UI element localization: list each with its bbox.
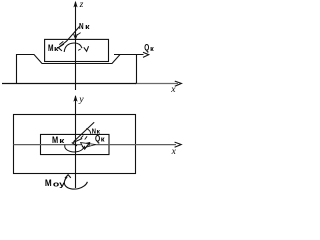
svg-text:x: x xyxy=(170,85,176,95)
Nk arrowhead (top) xyxy=(58,44,64,51)
svg-text:M: M xyxy=(45,178,52,188)
Qk hollow arrow (bottom) xyxy=(81,143,96,148)
inner rectangle (workpiece, top view) xyxy=(41,134,110,154)
Moy arc arrowhead xyxy=(65,175,71,179)
vertical force arrowhead on axis (top) xyxy=(74,34,78,39)
svg-text:к: к xyxy=(101,137,105,144)
x axis arrowhead (top figure) xyxy=(175,81,182,86)
svg-text:M: M xyxy=(52,135,58,145)
svg-text:к: к xyxy=(54,44,59,53)
small tick right of axis (top) xyxy=(77,33,81,36)
workpiece rectangle (top) xyxy=(45,39,109,61)
angle arc (bottom) xyxy=(86,129,91,134)
Mk arc arrowhead (bottom) xyxy=(86,143,90,147)
z axis xyxy=(75,2,77,90)
svg-text:y: y xyxy=(78,95,84,105)
Nk diagonal force line (bottom) xyxy=(74,122,95,142)
svg-text:x: x xyxy=(171,147,177,157)
svg-text:к: к xyxy=(85,24,90,31)
y axis arrowhead xyxy=(73,95,77,102)
Nk diagonal force line (top) xyxy=(58,27,79,48)
svg-text:оу: оу xyxy=(53,179,65,188)
Mk arc V hook (bottom) xyxy=(82,146,87,150)
Mk moment arc (top) xyxy=(64,43,82,52)
svg-text:N: N xyxy=(79,21,84,31)
parallel stroke on diagonal (top) xyxy=(59,41,63,44)
z axis arrowhead xyxy=(73,1,77,8)
svg-text:M: M xyxy=(48,43,54,53)
svg-text:Q: Q xyxy=(144,43,149,53)
base (fixture) outline xyxy=(17,55,137,84)
x axis (bottom figure) gray line xyxy=(14,144,177,146)
Moy moment arc xyxy=(64,177,87,189)
x axis arrowhead (bottom figure) xyxy=(175,142,182,147)
Mk moment arc (bottom) xyxy=(65,145,85,152)
Mk arc flag stroke (bottom) xyxy=(85,143,90,149)
Qk force arrow (top) xyxy=(114,54,144,56)
Mk arc small check stroke (top) xyxy=(78,49,81,50)
x axis (top figure) black segment / base bottom xyxy=(2,83,136,85)
Mk arc arrowhead (top) xyxy=(84,46,89,51)
Nk arrowhead (bottom) xyxy=(72,139,82,146)
tick 2 across diagonal (bottom) xyxy=(85,136,87,139)
svg-text:Q: Q xyxy=(95,133,100,143)
outer rectangle (plate, top view) xyxy=(14,115,136,174)
svg-text:z: z xyxy=(79,0,84,10)
x axis (top figure) gray segment xyxy=(135,83,178,85)
y axis xyxy=(75,96,77,188)
svg-text:к: к xyxy=(150,46,154,53)
svg-text:к: к xyxy=(59,136,65,145)
tick across diagonal (bottom) xyxy=(81,135,84,138)
